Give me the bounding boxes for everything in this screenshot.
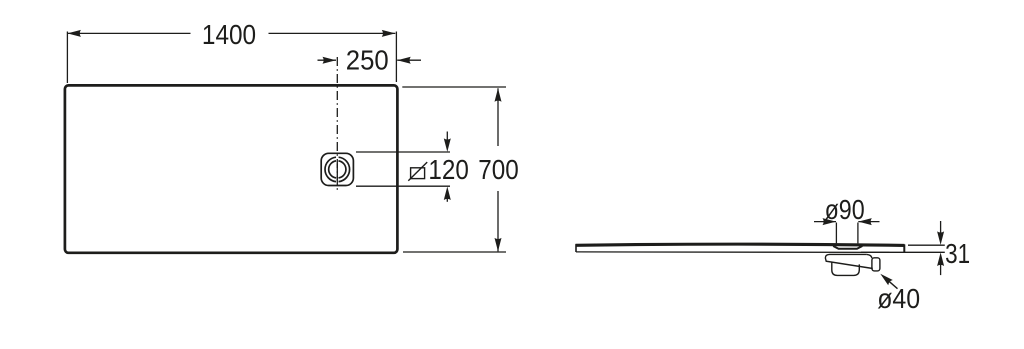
dim 1400 extension line left — [66, 32, 68, 84]
dim 1400 arrow left — [67, 30, 81, 37]
dim 250 arrow left (points right) — [323, 57, 337, 64]
side view: drain trap body — [825, 254, 872, 268]
dim 700 line upper segment — [497, 88, 499, 146]
svg-text:120: 120 — [428, 154, 468, 185]
dim 120 arrow stem top — [446, 132, 448, 142]
dim o90 arrow left (points right) — [823, 218, 837, 225]
tray outline (top view) — [65, 85, 398, 252]
drain centerline (dash-dot) — [336, 57, 338, 191]
dim 31 arrow stem bottom — [940, 262, 942, 275]
dim 1400 arrow right — [382, 30, 396, 37]
dim 31 arrow down — [937, 231, 944, 245]
dim o90 extension line right — [857, 223, 859, 244]
dim o90 extension line left — [835, 223, 837, 244]
dim o90 line left segment — [814, 221, 836, 223]
dim 250 line right segment — [397, 59, 421, 61]
dim o40 leader arrowhead — [878, 271, 893, 285]
drain flange square — [321, 153, 353, 185]
side view: drain outlet pipe — [872, 258, 880, 271]
drain inner rim — [329, 161, 346, 178]
dim 250 line left segment — [318, 59, 337, 61]
dim 120 arrow stem bottom — [446, 197, 448, 202]
svg-text:250: 250 — [346, 45, 389, 76]
dim 31 extension line top — [908, 244, 945, 246]
dim o40 leader line — [884, 277, 898, 289]
side view: drain cover recess — [833, 246, 862, 249]
drain outer rim — [325, 157, 350, 181]
dim 250 arrow right (points left) — [397, 57, 411, 64]
dim 700 line lower segment — [497, 191, 499, 251]
svg-text:ø90: ø90 — [825, 194, 865, 225]
svg-text:ø40: ø40 — [877, 283, 920, 314]
dim 1400 line left segment — [67, 32, 190, 34]
svg-text:31: 31 — [945, 238, 970, 269]
side view: tray bottom surface — [576, 251, 904, 254]
dim 120 extension line top — [356, 151, 450, 153]
side view: tray left end cap — [575, 244, 577, 252]
dim 120 arrow up (below bottom line) — [444, 187, 451, 201]
dim 700 arrow up — [495, 88, 502, 102]
dim 120 square symbol — [411, 168, 425, 179]
dim 700 arrow down — [495, 238, 502, 252]
svg-text:1400: 1400 — [202, 19, 256, 50]
svg-text:700: 700 — [478, 154, 519, 185]
dim 31 arrow stem top — [940, 221, 942, 235]
dim 120 extension line bottom — [356, 185, 450, 187]
dim o90 line right segment — [858, 221, 879, 223]
dim 31 extension line bottom — [861, 251, 945, 253]
side view: drain body right shoulder — [867, 254, 872, 258]
side view: drain trap cup — [832, 262, 860, 275]
drain centerline solid segment — [336, 164, 338, 181]
side view: tray top surface — [576, 244, 905, 245]
dim 700 extension line bottom — [403, 251, 506, 253]
side view: tray right end cap — [903, 244, 905, 252]
dim 700 extension line top — [402, 86, 506, 88]
dim 31 arrow up — [937, 253, 944, 267]
dim o90 arrow right (points left) — [858, 218, 872, 225]
dim 1400 line right segment — [269, 32, 396, 34]
dim 120 arrow down (above top line) — [444, 138, 451, 152]
dim 1400 extension line right — [395, 32, 397, 83]
dim 120 square symbol diagonal — [408, 162, 427, 181]
